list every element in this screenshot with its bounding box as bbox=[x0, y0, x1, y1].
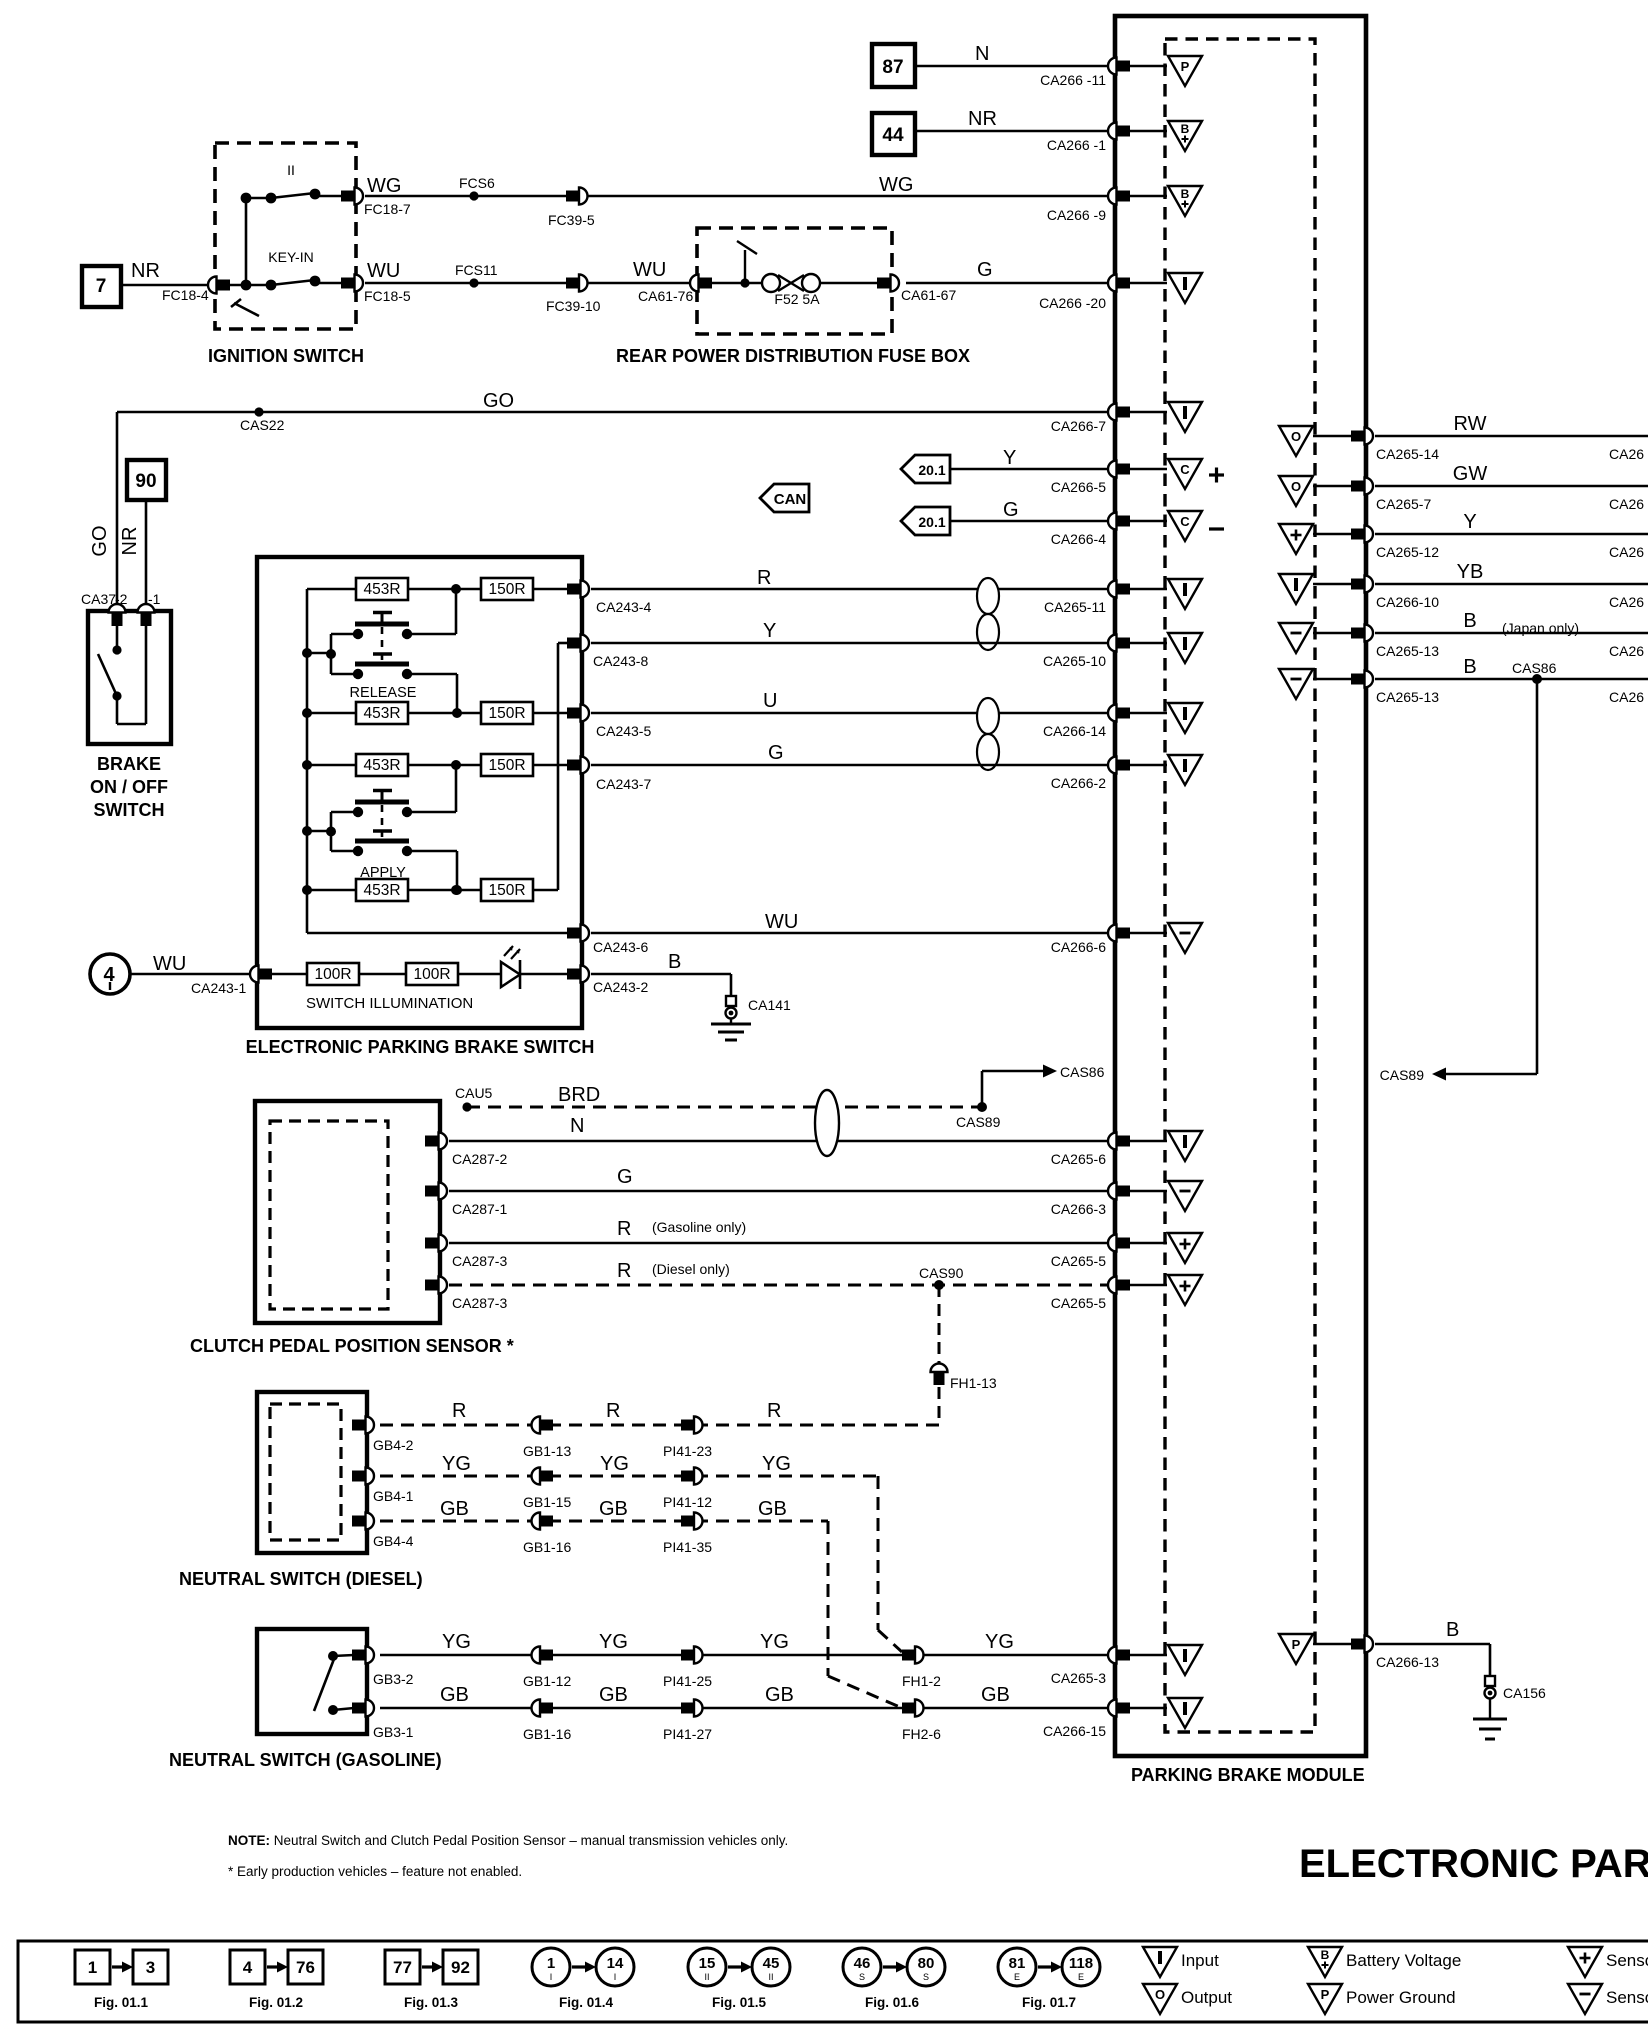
svg-text:100R: 100R bbox=[413, 966, 450, 983]
svg-text:WU: WU bbox=[633, 259, 666, 281]
svg-text:CA265-5: CA265-5 bbox=[1051, 1295, 1106, 1311]
svg-text:CA266-15: CA266-15 bbox=[1043, 1723, 1106, 1739]
pin GB3-1 bbox=[352, 1700, 414, 1741]
svg-text:S: S bbox=[859, 1972, 865, 1982]
switch RELEASE bbox=[302, 613, 417, 702]
pin CA37-2 bbox=[109, 604, 126, 626]
svg-text:PI41-35: PI41-35 bbox=[663, 1539, 712, 1555]
legend battery voltage bbox=[1308, 1947, 1461, 1977]
svg-text:O: O bbox=[1291, 479, 1301, 494]
box 87 bbox=[872, 44, 915, 87]
pin FC18-5 bbox=[341, 275, 411, 305]
wire GB diesel drop bbox=[828, 1521, 902, 1708]
pin CA265-5 bbox=[1051, 1235, 1130, 1270]
label CLUTCH PEDAL POSITION SENSOR bbox=[190, 1336, 514, 1356]
svg-text:Y: Y bbox=[763, 620, 776, 642]
svg-text:(Diesel only): (Diesel only) bbox=[652, 1261, 730, 1277]
svg-text:WU: WU bbox=[367, 260, 400, 282]
box 90 bbox=[127, 460, 166, 500]
svg-text:7: 7 bbox=[96, 276, 107, 297]
release wire down bbox=[407, 674, 462, 718]
svg-text:CA266 -11: CA266 -11 bbox=[1040, 72, 1106, 88]
ignition actuator bbox=[231, 299, 259, 316]
svg-text:(Gasoline only): (Gasoline only) bbox=[652, 1219, 746, 1235]
apply wire down bbox=[407, 851, 462, 895]
svg-text:Sensor Ground: Sensor Ground bbox=[1606, 1988, 1648, 2007]
svg-text:GB1-15: GB1-15 bbox=[523, 1494, 571, 1510]
wire BRD dashed bbox=[455, 1084, 980, 1112]
svg-text:N: N bbox=[570, 1115, 584, 1137]
svg-text:CA61-67: CA61-67 bbox=[901, 287, 956, 303]
svg-text:NEUTRAL SWITCH (DIESEL): NEUTRAL SWITCH (DIESEL) bbox=[179, 1569, 423, 1589]
svg-text:44: 44 bbox=[882, 125, 904, 146]
svg-text:R: R bbox=[606, 1400, 620, 1422]
svg-text:PI41-12: PI41-12 bbox=[663, 1494, 712, 1510]
wire YG diesel drop bbox=[878, 1476, 902, 1652]
triangle input CA265-3 bbox=[1130, 1645, 1202, 1675]
svg-text:15: 15 bbox=[699, 1955, 716, 1972]
svg-text:II: II bbox=[287, 162, 295, 178]
wire G epb bbox=[591, 742, 1108, 765]
svg-text:GB: GB bbox=[440, 1498, 469, 1520]
pin CA287-2 bbox=[425, 1133, 507, 1168]
svg-text:NR: NR bbox=[119, 527, 141, 556]
wire WG to module bbox=[587, 174, 1108, 196]
svg-text:GB: GB bbox=[981, 1684, 1010, 1706]
pin CA243-2 bbox=[567, 966, 648, 996]
svg-text:O: O bbox=[1155, 1987, 1165, 2002]
neutral switch diesel outline bbox=[257, 1392, 367, 1553]
fuse box dashed outline bbox=[697, 228, 892, 334]
svg-text:CA287-1: CA287-1 bbox=[452, 1201, 507, 1217]
svg-text:U: U bbox=[763, 690, 777, 712]
wire GB gasoline bbox=[380, 1684, 1108, 1708]
svg-text:GB3-2: GB3-2 bbox=[373, 1671, 414, 1687]
svg-text:GB1-16: GB1-16 bbox=[523, 1539, 571, 1555]
svg-text:B: B bbox=[1321, 1948, 1330, 1962]
wire WU FCS11 bbox=[365, 260, 571, 288]
pin GB4-4 bbox=[352, 1513, 414, 1550]
wire U bbox=[591, 690, 1108, 713]
svg-text:CA265-14: CA265-14 bbox=[1376, 446, 1439, 462]
connector PI41-27 bbox=[663, 1700, 712, 1743]
svg-text:150R: 150R bbox=[488, 581, 525, 598]
svg-text:ELECTRONIC PARKING BRAKE SWITC: ELECTRONIC PARKING BRAKE SWITCH bbox=[246, 1037, 595, 1057]
svg-text:150R: 150R bbox=[488, 705, 525, 722]
ignition switch dashed box bbox=[215, 143, 356, 329]
svg-text:Fig. 01.5: Fig. 01.5 bbox=[712, 1995, 767, 2010]
pin CA266-4 bbox=[1051, 513, 1130, 548]
svg-text:P: P bbox=[1292, 1637, 1301, 1652]
connector FH2-6 bbox=[902, 1700, 941, 1743]
pin FC18-4 bbox=[162, 277, 230, 304]
wire B CA265-13 bbox=[1375, 610, 1648, 659]
svg-text:YB: YB bbox=[1457, 561, 1484, 583]
svg-text:453R: 453R bbox=[363, 581, 400, 598]
wire WU illumination bbox=[130, 953, 250, 975]
svg-text:R: R bbox=[757, 567, 771, 589]
parking brake module outline bbox=[1115, 16, 1366, 1756]
legend sensor ground bbox=[1568, 1984, 1648, 2014]
svg-text:CAS22: CAS22 bbox=[240, 417, 285, 433]
svg-text:FC18-5: FC18-5 bbox=[364, 288, 411, 304]
pin GB3-2 bbox=[352, 1647, 414, 1688]
svg-text:G: G bbox=[768, 742, 784, 764]
svg-text:Fig. 01.6: Fig. 01.6 bbox=[865, 1995, 920, 2010]
pin FC18-7 bbox=[341, 188, 411, 218]
label REAR POWER DISTRIBUTION FUSE BOX bbox=[616, 346, 970, 366]
wire Y CAN high bbox=[950, 447, 1108, 469]
resistor 453R row2 bbox=[302, 702, 408, 724]
pin CA266-5 bbox=[1051, 461, 1130, 496]
pin CA265-13 bbox=[1351, 671, 1439, 706]
epb left bus bbox=[306, 589, 309, 933]
wire WG FCS6 bbox=[365, 175, 571, 201]
legend input bbox=[1143, 1947, 1219, 1977]
svg-text:Y: Y bbox=[1463, 511, 1476, 533]
svg-text:C: C bbox=[1180, 514, 1190, 529]
svg-text:B: B bbox=[1181, 122, 1190, 136]
title ELECTRONIC PARK bbox=[1299, 1842, 1648, 1886]
svg-text:P: P bbox=[1181, 59, 1190, 74]
svg-text:BRD: BRD bbox=[558, 1084, 600, 1106]
svg-text:I: I bbox=[614, 1972, 617, 1982]
svg-text:Battery Voltage: Battery Voltage bbox=[1346, 1951, 1461, 1970]
electronic parking brake switch outline bbox=[257, 557, 582, 1028]
svg-text:GB: GB bbox=[440, 1684, 469, 1706]
svg-text:20.1: 20.1 bbox=[918, 514, 945, 530]
ground CA156 bbox=[1473, 1676, 1546, 1739]
legend fig 01.3 bbox=[385, 1950, 478, 2010]
wire GW CA265-7 bbox=[1375, 463, 1648, 512]
triangle I CA266-10 bbox=[1279, 574, 1351, 604]
svg-text:REAR POWER DISTRIBUTION FUSE B: REAR POWER DISTRIBUTION FUSE BOX bbox=[616, 346, 970, 366]
pin CA287-1 bbox=[425, 1183, 507, 1218]
pin CA265-12 bbox=[1351, 526, 1439, 561]
connector PI41-23 bbox=[663, 1417, 712, 1460]
svg-text:RW: RW bbox=[1454, 413, 1487, 435]
pin CA61-67 bbox=[877, 275, 956, 304]
svg-text:Y: Y bbox=[1003, 447, 1016, 469]
pin CA265-5 diesel bbox=[1051, 1277, 1130, 1312]
arrow to CAS86 bbox=[982, 1064, 1105, 1107]
label BRAKE ON/OFF SWITCH bbox=[90, 754, 168, 820]
neutral switch gasoline outline bbox=[257, 1629, 367, 1734]
svg-text:46: 46 bbox=[854, 1955, 871, 1972]
svg-text:YG: YG bbox=[442, 1631, 471, 1653]
svg-text:GB1-13: GB1-13 bbox=[523, 1443, 571, 1459]
ignition internal vertical bbox=[245, 198, 248, 285]
svg-text:CA156: CA156 bbox=[1503, 1685, 1546, 1701]
svg-text:WU: WU bbox=[765, 911, 798, 933]
switch APPLY bbox=[302, 791, 412, 882]
splice CAS89 bbox=[956, 1102, 1001, 1130]
triangle - CA265-13 bbox=[1279, 623, 1351, 653]
svg-text:FH2-6: FH2-6 bbox=[902, 1726, 941, 1742]
svg-text:GB1-12: GB1-12 bbox=[523, 1673, 571, 1689]
wire GB diesel row bbox=[380, 1498, 828, 1521]
wire R diesel row bbox=[380, 1400, 939, 1425]
wire NR bbox=[915, 108, 1108, 131]
svg-text:1: 1 bbox=[88, 1958, 97, 1977]
switch II contacts bbox=[241, 189, 342, 204]
svg-text:CA265-12: CA265-12 bbox=[1376, 544, 1439, 560]
svg-text:FCS11: FCS11 bbox=[455, 262, 498, 278]
svg-text:FC39-5: FC39-5 bbox=[548, 212, 595, 228]
twisted loop N BRD bbox=[815, 1090, 839, 1156]
svg-text:GB3-1: GB3-1 bbox=[373, 1724, 414, 1740]
svg-text:G: G bbox=[1003, 499, 1019, 521]
wire RW CA265-14 bbox=[1375, 413, 1648, 462]
pin CA265-13 bbox=[1351, 625, 1439, 660]
triangle minus CA266-3 bbox=[1130, 1181, 1202, 1211]
resistor 150R row4 bbox=[408, 879, 558, 901]
cpp sensor dashed box bbox=[270, 1121, 388, 1309]
svg-text:4: 4 bbox=[243, 1958, 253, 1977]
svg-text:GO: GO bbox=[483, 390, 514, 412]
connector FC39-5 bbox=[548, 188, 595, 229]
svg-text:CA265-5: CA265-5 bbox=[1051, 1253, 1106, 1269]
svg-text:WG: WG bbox=[367, 175, 401, 197]
triangle power ground CA266-13 bbox=[1279, 1634, 1351, 1664]
release wire up bbox=[407, 589, 456, 634]
triangle input CA265-6 bbox=[1130, 1131, 1202, 1161]
fuse F52 5A bbox=[762, 274, 820, 307]
label ELECTRONIC PARKING BRAKE SWITCH bbox=[246, 1037, 595, 1057]
svg-text:N: N bbox=[975, 43, 989, 65]
connector FH1-13 bbox=[931, 1364, 997, 1392]
resistor 150R row2 bbox=[408, 702, 568, 724]
wire YG diesel row bbox=[380, 1453, 878, 1476]
svg-text:CAS90: CAS90 bbox=[919, 1265, 964, 1281]
svg-text:YG: YG bbox=[442, 1453, 471, 1475]
note text bbox=[228, 1833, 788, 1848]
svg-text:Sensor Supply: Sensor Supply bbox=[1606, 1951, 1648, 1970]
svg-text:SWITCH ILLUMINATION: SWITCH ILLUMINATION bbox=[306, 995, 473, 1012]
triangle O CA265-7 bbox=[1279, 476, 1351, 506]
LED switch illumination bbox=[458, 946, 568, 989]
svg-text:I: I bbox=[550, 1972, 553, 1982]
pin CA266-13 bbox=[1351, 1636, 1439, 1671]
wire G to module bbox=[906, 259, 1108, 283]
pin CA266-1 bbox=[1047, 123, 1130, 154]
svg-text:ELECTRONIC PARK: ELECTRONIC PARK bbox=[1299, 1842, 1648, 1886]
svg-text:CA265-7: CA265-7 bbox=[1376, 496, 1431, 512]
connector GB1-12 bbox=[523, 1647, 571, 1690]
svg-text:FC18-7: FC18-7 bbox=[364, 201, 411, 217]
triangle input CA265-10 bbox=[1130, 633, 1202, 663]
CAN flag bbox=[760, 484, 809, 512]
svg-text:WU: WU bbox=[153, 953, 186, 975]
resistor 150R row1 bbox=[408, 578, 568, 600]
legend fig 01.5 bbox=[688, 1948, 790, 2010]
twisted pair RY bbox=[977, 578, 999, 650]
svg-text:100R: 100R bbox=[314, 966, 351, 983]
box 44 bbox=[872, 113, 915, 155]
svg-text:ON / OFF: ON / OFF bbox=[90, 777, 168, 797]
svg-text:14: 14 bbox=[607, 1955, 624, 1972]
svg-text:YG: YG bbox=[599, 1631, 628, 1653]
resistor 453R row3 bbox=[302, 754, 408, 776]
fusebox out wire bbox=[820, 282, 879, 285]
circle 4 connector bbox=[90, 954, 130, 994]
svg-text:CA61-76: CA61-76 bbox=[638, 288, 693, 304]
svg-text:F52 5A: F52 5A bbox=[774, 291, 820, 307]
pin CA265-10 bbox=[1043, 635, 1130, 670]
svg-text:45: 45 bbox=[763, 1955, 780, 1972]
svg-text:CA266 -20: CA266 -20 bbox=[1039, 295, 1106, 311]
flag 20.1 Y bbox=[901, 455, 950, 483]
svg-text:CA26: CA26 bbox=[1609, 496, 1644, 512]
wire B CA265-13 bbox=[1375, 656, 1648, 705]
svg-text:87: 87 bbox=[882, 57, 903, 78]
svg-text:BRAKE: BRAKE bbox=[97, 754, 161, 774]
wire NR to FC18-4 bbox=[121, 260, 208, 285]
wire G CAN low bbox=[950, 499, 1108, 521]
connector PI41-12 bbox=[663, 1468, 712, 1511]
svg-text:CA243-8: CA243-8 bbox=[593, 653, 648, 669]
pin CA61-76 bbox=[690, 275, 712, 292]
svg-text:CAN: CAN bbox=[774, 491, 807, 508]
pin CA265-6 bbox=[1051, 1133, 1130, 1168]
svg-text:1: 1 bbox=[547, 1955, 555, 1972]
svg-text:CA265-11: CA265-11 bbox=[1044, 599, 1106, 615]
svg-text:CA26: CA26 bbox=[1609, 446, 1644, 462]
legend output bbox=[1143, 1984, 1232, 2014]
svg-text:PI41-25: PI41-25 bbox=[663, 1673, 712, 1689]
pin CA266-14 bbox=[1043, 705, 1130, 740]
svg-text:CA266-14: CA266-14 bbox=[1043, 723, 1106, 739]
svg-text:E: E bbox=[1078, 1972, 1084, 1982]
svg-text:Fig. 01.3: Fig. 01.3 bbox=[404, 1995, 459, 2010]
wire R bbox=[591, 567, 1108, 589]
triangle - CA265-13 bbox=[1279, 669, 1351, 699]
pin CA243-6 bbox=[567, 925, 648, 956]
svg-text:* Early production vehicles –: * Early production vehicles – feature no… bbox=[228, 1864, 522, 1879]
svg-text:CA266-5: CA266-5 bbox=[1051, 479, 1106, 495]
wire GO bbox=[89, 390, 1108, 611]
svg-text:CA266-13: CA266-13 bbox=[1376, 1654, 1439, 1670]
fusebox feed bbox=[711, 241, 764, 288]
svg-text:CA266 -1: CA266 -1 bbox=[1047, 137, 1106, 153]
svg-text:NOTE: Neutral Switch and Clutc: NOTE: Neutral Switch and Clutch Pedal Po… bbox=[228, 1833, 788, 1848]
legend power ground bbox=[1308, 1984, 1456, 2014]
svg-text:PARKING BRAKE MODULE: PARKING BRAKE MODULE bbox=[1131, 1765, 1365, 1785]
svg-text:CA266-3: CA266-3 bbox=[1051, 1201, 1106, 1217]
wire WU epb bbox=[591, 911, 1108, 933]
box 7 bbox=[82, 266, 121, 307]
svg-text:CA287-3: CA287-3 bbox=[452, 1295, 507, 1311]
triangle input CA266-14 bbox=[1130, 703, 1202, 733]
svg-text:Input: Input bbox=[1181, 1951, 1219, 1970]
svg-text:KEY-IN: KEY-IN bbox=[268, 249, 313, 265]
connector GB1-13 bbox=[523, 1417, 571, 1460]
svg-text:150R: 150R bbox=[488, 882, 525, 899]
svg-text:80: 80 bbox=[918, 1955, 935, 1972]
svg-text:GO: GO bbox=[89, 525, 111, 556]
svg-text:453R: 453R bbox=[363, 757, 400, 774]
svg-text:CA266-6: CA266-6 bbox=[1051, 939, 1106, 955]
neutral diesel dashed box bbox=[270, 1404, 341, 1540]
legend fig 01.1 bbox=[75, 1950, 168, 2010]
twisted pair UG bbox=[977, 698, 999, 770]
svg-text:3: 3 bbox=[146, 1958, 155, 1977]
wire Y CA265-12 bbox=[1375, 511, 1648, 560]
svg-text:CA287-3: CA287-3 bbox=[452, 1253, 507, 1269]
label SWITCH ILLUMINATION bbox=[306, 995, 473, 1012]
connector FC39-10 bbox=[546, 275, 601, 315]
legend fig 01.6 bbox=[843, 1948, 945, 2010]
pin CA265-7 bbox=[1351, 478, 1431, 513]
wire Y epb bbox=[591, 620, 1108, 643]
apply wire up bbox=[407, 765, 456, 812]
triangle O CA265-14 bbox=[1279, 426, 1351, 456]
svg-text:B: B bbox=[1463, 656, 1476, 678]
pin CA265-14 bbox=[1351, 428, 1439, 463]
svg-text:R: R bbox=[617, 1260, 631, 1282]
pin CA266-6 bbox=[1051, 925, 1130, 956]
svg-text:FH1-2: FH1-2 bbox=[902, 1673, 941, 1689]
svg-text:FH1-13: FH1-13 bbox=[950, 1375, 997, 1391]
svg-text:G: G bbox=[977, 259, 993, 281]
svg-text:GB4-2: GB4-2 bbox=[373, 1437, 414, 1453]
svg-text:CA26: CA26 bbox=[1609, 594, 1644, 610]
connector GB1-16 diesel bbox=[523, 1513, 571, 1556]
svg-text:Power Ground: Power Ground bbox=[1346, 1988, 1456, 2007]
triangle input P CA266-11 bbox=[1130, 56, 1202, 86]
label PARKING BRAKE MODULE bbox=[1131, 1765, 1365, 1785]
svg-text:CA265-10: CA265-10 bbox=[1043, 653, 1106, 669]
triangle battery CA266-1 bbox=[1130, 121, 1202, 151]
svg-text:R: R bbox=[617, 1218, 631, 1240]
connector GB1-16 gasoline bbox=[523, 1700, 571, 1743]
svg-text:92: 92 bbox=[451, 1958, 470, 1977]
svg-text:B: B bbox=[1463, 610, 1476, 632]
svg-text:CA266-4: CA266-4 bbox=[1051, 531, 1106, 547]
svg-text:CA266 -9: CA266 -9 bbox=[1047, 207, 1106, 223]
connector PI41-35 bbox=[663, 1513, 712, 1556]
svg-text:PI41-27: PI41-27 bbox=[663, 1726, 712, 1742]
clutch pedal position sensor outline bbox=[255, 1101, 440, 1323]
svg-text:CAS89: CAS89 bbox=[1380, 1067, 1425, 1083]
legend fig 01.2 bbox=[230, 1950, 323, 2010]
resistor 100R a bbox=[270, 963, 359, 985]
svg-text:SWITCH: SWITCH bbox=[94, 800, 165, 820]
svg-text:R: R bbox=[767, 1400, 781, 1422]
svg-text:CAS89: CAS89 bbox=[956, 1114, 1001, 1130]
wire NR 90 bbox=[119, 500, 146, 611]
svg-text:Fig. 01.7: Fig. 01.7 bbox=[1022, 1995, 1076, 2010]
pin CA266-2 bbox=[1051, 757, 1130, 792]
svg-text:RELEASE: RELEASE bbox=[350, 685, 417, 701]
pin CA266-20 bbox=[1039, 275, 1130, 312]
pin CA266-11 bbox=[1040, 58, 1130, 89]
row4 to CA243-8 bbox=[558, 643, 568, 890]
svg-text:GB: GB bbox=[599, 1684, 628, 1706]
svg-text:YG: YG bbox=[762, 1453, 791, 1475]
svg-text:77: 77 bbox=[393, 1958, 412, 1977]
triangle minus CA266-6 bbox=[1130, 923, 1202, 953]
svg-text:O: O bbox=[1291, 429, 1301, 444]
svg-text:E: E bbox=[1014, 1972, 1020, 1982]
svg-text:NR: NR bbox=[131, 260, 160, 282]
brake on/off switch outline bbox=[88, 611, 171, 744]
triangle input CA266-15 bbox=[1130, 1698, 1202, 1728]
svg-text:GB1-16: GB1-16 bbox=[523, 1726, 571, 1742]
svg-text:76: 76 bbox=[296, 1958, 315, 1977]
pin CA266-15 bbox=[1043, 1700, 1130, 1740]
wire R diesel dashed bbox=[449, 1260, 1108, 1290]
